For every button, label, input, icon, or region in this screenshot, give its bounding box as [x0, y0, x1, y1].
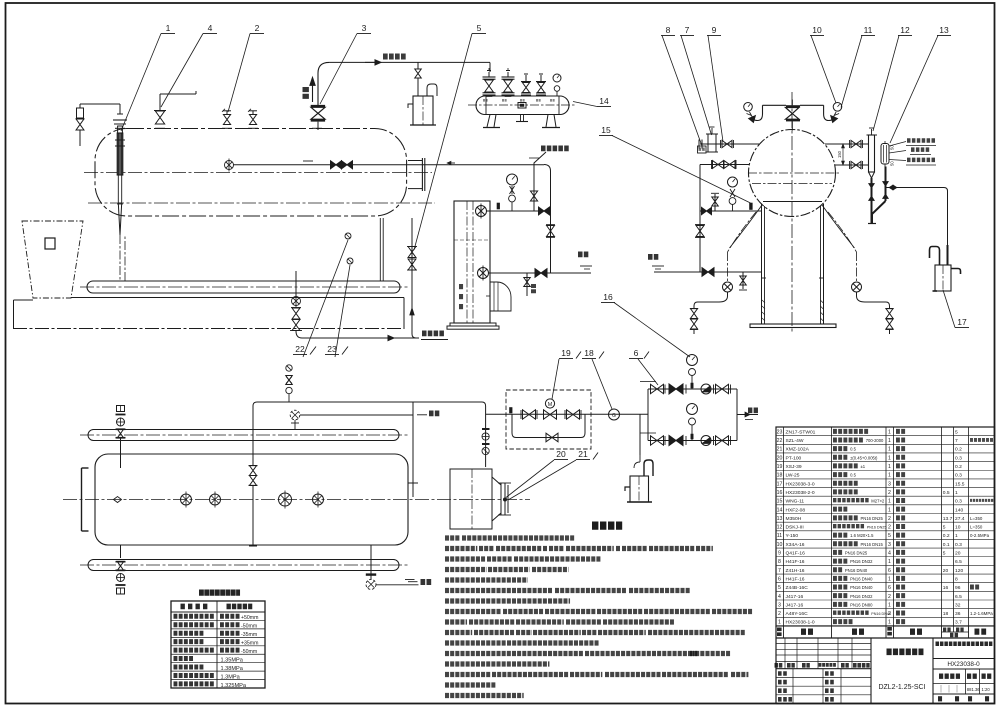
svg-text:PN16 DN25: PN16 DN25 — [861, 516, 884, 521]
svg-text:1.2-1.6MPa: 1.2-1.6MPa — [970, 611, 993, 616]
svg-text:M: M — [548, 402, 553, 408]
svg-text:11: 11 — [864, 25, 873, 35]
svg-text:12: 12 — [900, 25, 910, 35]
svg-text:1: 1 — [888, 499, 891, 505]
svg-text:13.7: 13.7 — [943, 516, 953, 522]
svg-text:16: 16 — [777, 490, 783, 496]
svg-text:6: 6 — [634, 348, 639, 358]
svg-text:1.38MPa: 1.38MPa — [221, 666, 244, 672]
svg-text:Z41H-16: Z41H-16 — [786, 568, 805, 574]
svg-text:1: 1 — [888, 473, 891, 479]
svg-text:1: 1 — [888, 455, 891, 461]
svg-text:0.5: 0.5 — [850, 447, 856, 452]
svg-text:6: 6 — [778, 576, 781, 582]
svg-text:0.3: 0.3 — [955, 542, 962, 548]
svg-text:3: 3 — [778, 602, 781, 608]
svg-text:1: 1 — [888, 576, 891, 582]
svg-text:23: 23 — [777, 429, 783, 435]
svg-text:PN16 DN25: PN16 DN25 — [845, 551, 868, 556]
svg-text:10: 10 — [777, 542, 783, 548]
svg-text:0.5: 0.5 — [943, 490, 950, 496]
svg-text:150: 150 — [837, 150, 842, 158]
svg-text:3.7: 3.7 — [955, 620, 962, 626]
svg-text:15.5: 15.5 — [955, 481, 965, 487]
svg-text:6: 6 — [888, 585, 891, 591]
svg-text:-50mm: -50mm — [241, 623, 257, 629]
svg-text:5: 5 — [888, 533, 891, 539]
svg-text:J417-16: J417-16 — [786, 594, 804, 600]
svg-text:HXF2-08: HXF2-08 — [786, 507, 806, 513]
svg-text:1: 1 — [955, 490, 958, 496]
svg-text:15: 15 — [777, 499, 783, 505]
svg-text:1: 1 — [778, 620, 781, 626]
svg-text:17: 17 — [957, 317, 967, 327]
svg-text:19: 19 — [777, 464, 783, 470]
svg-text:PN16 DN15: PN16 DN15 — [861, 542, 884, 547]
svg-text:8: 8 — [666, 25, 671, 35]
svg-text:Y-150: Y-150 — [786, 533, 799, 539]
svg-text:-50mm: -50mm — [241, 649, 257, 655]
svg-text:L=350: L=350 — [970, 516, 983, 521]
svg-text:M27×2: M27×2 — [871, 499, 885, 504]
svg-text:22: 22 — [777, 438, 783, 444]
svg-text:4: 4 — [778, 594, 781, 600]
svg-text:1: 1 — [888, 447, 891, 453]
svg-text:2: 2 — [888, 490, 891, 496]
svg-text:1.35MPa: 1.35MPa — [221, 657, 244, 663]
svg-text:16: 16 — [603, 292, 613, 302]
svg-text:PN16 DN32: PN16 DN32 — [850, 559, 873, 564]
svg-text:1: 1 — [955, 533, 958, 539]
svg-text:22: 22 — [295, 344, 305, 354]
svg-text:0.3: 0.3 — [955, 455, 962, 461]
svg-text:5: 5 — [943, 551, 946, 557]
svg-text:0.3: 0.3 — [955, 499, 962, 505]
svg-text:17: 17 — [777, 481, 783, 487]
svg-text:19: 19 — [561, 348, 571, 358]
svg-text:50: 50 — [890, 161, 895, 166]
svg-text:16: 16 — [943, 585, 949, 591]
svg-text:1: 1 — [888, 438, 891, 444]
svg-text:5: 5 — [778, 585, 781, 591]
svg-text:3: 3 — [888, 542, 891, 548]
svg-text:J417-16: J417-16 — [786, 602, 804, 608]
svg-text:14: 14 — [599, 96, 609, 106]
svg-text:1: 1 — [888, 620, 891, 626]
svg-text:20: 20 — [556, 449, 566, 459]
svg-text:Z44B-16C: Z44B-16C — [786, 585, 809, 591]
svg-text:96: 96 — [955, 585, 961, 591]
svg-text:0.2: 0.2 — [943, 533, 950, 539]
svg-text:PN16 DN32: PN16 DN32 — [850, 594, 873, 599]
svg-text:HX23038-2-0: HX23038-2-0 — [786, 490, 815, 496]
svg-text:4: 4 — [888, 551, 891, 557]
svg-text:+50mm: +50mm — [241, 615, 258, 621]
svg-text:2: 2 — [255, 23, 260, 33]
svg-text:1:20: 1:20 — [982, 687, 991, 692]
svg-text:±(0.45+0.005t): ±(0.45+0.005t) — [850, 455, 878, 460]
svg-text:20: 20 — [943, 568, 949, 574]
svg-text:±1: ±1 — [861, 464, 866, 469]
svg-text:A48Y-16C: A48Y-16C — [786, 611, 809, 617]
svg-text:14: 14 — [777, 507, 783, 513]
svg-text:1.3MPa: 1.3MPa — [221, 674, 241, 680]
svg-text:XSJ-39: XSJ-39 — [786, 464, 802, 470]
svg-text:18: 18 — [584, 348, 594, 358]
svg-text:140: 140 — [955, 507, 963, 513]
svg-text:5: 5 — [943, 525, 946, 531]
svg-text:PN16 DN80: PN16 DN80 — [850, 602, 873, 607]
svg-text:2: 2 — [888, 516, 891, 522]
svg-text:1: 1 — [888, 429, 891, 435]
svg-text:1: 1 — [166, 23, 171, 33]
svg-text:PN16 DN40: PN16 DN40 — [845, 568, 868, 573]
svg-text:8: 8 — [955, 576, 958, 582]
svg-text:2: 2 — [778, 611, 781, 617]
svg-text:7: 7 — [778, 568, 781, 574]
svg-text:H41F-16: H41F-16 — [786, 559, 805, 565]
svg-text:0.1: 0.1 — [943, 542, 950, 548]
svg-text:13: 13 — [777, 516, 783, 522]
svg-text:1: 1 — [888, 464, 891, 470]
svg-text:SZL-4W: SZL-4W — [786, 438, 804, 444]
svg-text:6.5: 6.5 — [955, 594, 962, 600]
svg-text:H41F-16: H41F-16 — [786, 576, 805, 582]
svg-text:2: 2 — [888, 525, 891, 531]
svg-text:7: 7 — [955, 438, 958, 444]
svg-text:120: 120 — [955, 568, 963, 574]
svg-text:18: 18 — [777, 473, 783, 479]
svg-text:1: 1 — [888, 559, 891, 565]
svg-text:DSKJ-III: DSKJ-III — [786, 525, 804, 531]
svg-text:10: 10 — [955, 525, 961, 531]
svg-text:3: 3 — [888, 481, 891, 487]
svg-text:0.3: 0.3 — [955, 473, 962, 479]
svg-text:36: 36 — [955, 611, 961, 617]
svg-text:1: 1 — [888, 602, 891, 608]
svg-text:13: 13 — [939, 25, 949, 35]
svg-text:PT-100: PT-100 — [786, 455, 802, 461]
svg-text:5: 5 — [477, 23, 482, 33]
svg-text:9: 9 — [712, 25, 717, 35]
svg-text:21: 21 — [777, 447, 783, 453]
svg-text:0.2: 0.2 — [955, 447, 962, 453]
svg-text:700-2000: 700-2000 — [866, 438, 884, 443]
svg-text:20: 20 — [955, 551, 961, 557]
svg-text:21: 21 — [578, 449, 588, 459]
svg-text:5: 5 — [955, 429, 958, 435]
svg-text:7: 7 — [685, 25, 690, 35]
svg-text:0.5: 0.5 — [850, 473, 856, 478]
svg-text:10: 10 — [812, 25, 822, 35]
svg-text:M350H: M350H — [786, 516, 802, 522]
svg-text:20: 20 — [777, 455, 783, 461]
svg-text:PN16 DN25: PN16 DN25 — [867, 526, 887, 530]
svg-text:PN16 DN40: PN16 DN40 — [850, 576, 873, 581]
svg-text:+35mm: +35mm — [241, 640, 258, 646]
svg-text:G: G — [612, 413, 616, 419]
svg-text:9: 9 — [778, 551, 781, 557]
svg-text:18: 18 — [943, 611, 949, 617]
svg-text:ZN17-STW01: ZN17-STW01 — [786, 429, 816, 435]
svg-text:PN16 DN40: PN16 DN40 — [850, 585, 873, 590]
svg-text:32: 32 — [955, 602, 961, 608]
svg-text:1.325MPa: 1.325MPa — [221, 683, 247, 689]
svg-text:1.6 M20×1.5: 1.6 M20×1.5 — [850, 533, 874, 538]
svg-text:Q41F-16: Q41F-16 — [786, 551, 806, 557]
svg-text:-35mm: -35mm — [241, 632, 257, 638]
svg-text:HX23038-3-0: HX23038-3-0 — [786, 481, 815, 487]
svg-text:15: 15 — [601, 125, 611, 135]
svg-text:X34A-16: X34A-16 — [786, 542, 805, 548]
svg-text:12: 12 — [777, 525, 783, 531]
svg-text:0.2: 0.2 — [955, 464, 962, 470]
svg-text:WNG-11: WNG-11 — [786, 499, 805, 505]
svg-text:3: 3 — [362, 23, 367, 33]
svg-text:HX23038-0: HX23038-0 — [947, 661, 980, 668]
svg-text:11: 11 — [777, 533, 782, 539]
svg-text:HX23038-1-0: HX23038-1-0 — [786, 620, 815, 626]
svg-text:0-2.5MPa: 0-2.5MPa — [970, 533, 990, 538]
svg-text:4: 4 — [208, 23, 213, 33]
svg-text:2: 2 — [888, 594, 891, 600]
svg-text:27.4: 27.4 — [955, 516, 965, 522]
svg-text:LW-25: LW-25 — [786, 473, 800, 479]
svg-text:6.5: 6.5 — [955, 559, 962, 565]
svg-text:6: 6 — [888, 568, 891, 574]
svg-text:881.36: 881.36 — [967, 687, 980, 692]
svg-text:2: 2 — [888, 611, 891, 617]
svg-text:XMZ-102A: XMZ-102A — [786, 447, 810, 453]
svg-text:8: 8 — [778, 559, 781, 565]
svg-text:DZL2-1.25-SCI: DZL2-1.25-SCI — [878, 684, 925, 691]
svg-text:1: 1 — [888, 507, 891, 513]
svg-text:L=350: L=350 — [970, 525, 983, 530]
